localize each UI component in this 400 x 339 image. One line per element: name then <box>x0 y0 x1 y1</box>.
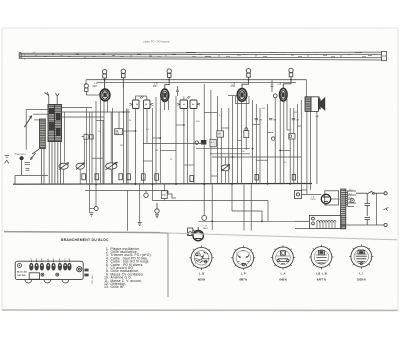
svg-text:R.P. 4049: R.P. 4049 <box>92 274 94 284</box>
tube V4 output <box>280 88 288 101</box>
wire V2 legs <box>152 97 168 184</box>
socket V2 label <box>239 271 247 281</box>
wire V1 legs <box>92 99 113 184</box>
strip small rect <box>29 273 39 279</box>
wire short links mid band <box>92 112 301 184</box>
svg-text:1M: 1M <box>296 120 299 122</box>
label L.P tube V1 <box>92 82 98 88</box>
socket V4 base <box>309 245 333 269</box>
socket V3 base <box>271 245 295 269</box>
dial tiny figures <box>24 52 320 61</box>
svg-text:L. I: L. I <box>359 271 363 275</box>
socket V5 label <box>357 271 366 281</box>
separator rule right <box>160 233 397 240</box>
svg-text:5M: 5M <box>218 134 221 136</box>
cathode resistor box R16 <box>161 191 167 199</box>
svg-text:6AF7 N: 6AF7 N <box>317 278 326 282</box>
dial left end bracket <box>19 53 21 59</box>
coupling capacitor C11 <box>271 80 274 92</box>
svg-text:5M: 5M <box>273 120 276 122</box>
strip terminal lugs <box>30 260 72 270</box>
svg-text:2: 2 <box>36 259 37 261</box>
svg-text:50K: 50K <box>196 121 200 123</box>
coupling capacitor C7 <box>176 86 179 96</box>
svg-text:5M: 5M <box>120 145 123 147</box>
grid cap G1 <box>102 69 106 89</box>
wire mid-band vertical runs <box>103 80 317 190</box>
socket V4 label <box>316 271 327 281</box>
mains switch S2 <box>356 191 384 194</box>
wire MF2 legs <box>176 96 194 184</box>
label tube V4 <box>278 83 282 86</box>
ground symbol <box>138 222 142 225</box>
screen rail <box>97 81 296 83</box>
grid stopper node <box>273 94 277 98</box>
wire antenna leads to frame aerial <box>44 92 59 104</box>
resistor R12 <box>244 128 249 138</box>
wire left horizontals <box>62 80 131 117</box>
wire PS links <box>301 190 339 199</box>
power supply: B+ terminal block <box>295 191 302 199</box>
resistor R14 <box>289 134 295 139</box>
IF transformer MF2 <box>177 96 200 109</box>
strip mounting holes <box>41 273 59 276</box>
antenna coupling caps <box>25 163 30 171</box>
magic eye tube V6 <box>193 227 203 241</box>
wire block bottom leads <box>42 142 61 185</box>
svg-text:25Z6 N: 25Z6 N <box>357 278 366 282</box>
mains terminal bottom <box>384 223 387 226</box>
grid cap G5 <box>283 68 293 88</box>
dial scale assembly <box>19 52 383 60</box>
junction dots <box>95 79 292 222</box>
stage box tube V3 <box>236 96 250 104</box>
wire AVC line <box>143 144 301 158</box>
T1 secondary windings <box>347 191 356 207</box>
decoupling resistor R boxes row <box>82 174 296 182</box>
volume potentiometer P1 <box>59 163 69 170</box>
IF transformer MF1 <box>129 96 153 109</box>
wire ground run left <box>15 176 48 185</box>
socket V3 label <box>279 271 286 281</box>
B+ top rail <box>86 79 307 81</box>
terminal strip body <box>15 261 83 279</box>
tube V1 converter <box>100 89 110 101</box>
strip lug numbers <box>31 258 70 261</box>
value label R9 <box>115 129 123 136</box>
svg-text:6E8: 6E8 <box>92 85 97 88</box>
svg-text:6H8 N: 6H8 N <box>279 278 286 282</box>
output transformer T2 <box>305 97 318 112</box>
electrolytic capacitor C8 <box>195 140 206 145</box>
tap node N <box>350 199 354 203</box>
svg-text:cadre PO - GO accord: cadre PO - GO accord <box>144 40 170 44</box>
pilot lamp E1 <box>84 84 88 95</box>
svg-text:L. P: L. P <box>241 271 246 275</box>
lamp node on second bus <box>144 191 148 198</box>
svg-text:2M: 2M <box>262 108 265 110</box>
svg-text:L.B - L.B: L.B - L.B <box>316 271 327 275</box>
label L.P tube V2 <box>153 82 158 88</box>
capacitor marks C14 <box>292 118 299 121</box>
svg-text:5M: 5M <box>155 150 158 152</box>
wire below-bus runs <box>90 184 309 230</box>
tone potentiometer P2 <box>76 163 85 170</box>
capacitor marks C13 <box>269 118 276 121</box>
terminal node 2 <box>155 203 159 218</box>
svg-text:1M: 1M <box>294 112 297 114</box>
grid cap G3 <box>165 69 172 89</box>
wire drops from second bus <box>96 184 128 231</box>
speaker HP <box>318 98 324 110</box>
tuning gang arrow <box>24 116 31 128</box>
svg-text:6M7 N: 6M7 N <box>239 278 247 282</box>
strip right screw <box>77 267 82 272</box>
label magic eye <box>203 226 209 231</box>
svg-text:OSC 455: OSC 455 <box>17 274 26 277</box>
label L.P tube V3 <box>231 82 236 88</box>
svg-text:3: 3 <box>41 259 42 261</box>
rectifier enclosure <box>325 191 339 205</box>
chassis ground bus <box>13 183 312 186</box>
label rectifier <box>310 197 316 202</box>
strip left screw <box>18 264 22 268</box>
svg-text:L. B: L. B <box>199 271 204 275</box>
grid cap G4 <box>242 69 251 89</box>
svg-text:BRANCHEMENT DU BLOC: BRANCHEMENT DU BLOC <box>61 238 109 242</box>
grid cap G2 <box>121 69 125 88</box>
page bottom shadow edge <box>2 309 398 312</box>
legend list <box>104 247 152 289</box>
dial cord tick marks <box>36 52 372 58</box>
svg-text:6H8: 6H8 <box>231 85 236 88</box>
capacitor C10 block <box>217 131 224 137</box>
terminal node <box>94 207 98 211</box>
socket V1 base <box>189 246 213 270</box>
svg-text:6: 6 <box>59 259 60 261</box>
svg-text:7: 7 <box>64 259 65 261</box>
terminal strip scalloped bottom <box>25 280 69 283</box>
wire V4 legs <box>280 99 294 184</box>
capacitor pair C4 C5 <box>82 134 94 139</box>
strip right tabs <box>84 269 88 277</box>
svg-text:10K: 10K <box>241 151 245 153</box>
tube V2 IF amplifier <box>161 89 169 101</box>
socket V1 label <box>198 271 205 281</box>
wire speaker top link <box>311 97 319 99</box>
wire block left taps <box>26 109 48 149</box>
svg-text:6E8 N: 6E8 N <box>198 278 205 282</box>
second bus below chassis <box>85 191 176 199</box>
socket V2 base <box>231 246 255 270</box>
magic eye socket box <box>188 228 196 236</box>
capacitor C9 block <box>210 139 216 147</box>
wire MF1 legs <box>124 88 148 184</box>
socket V5 base <box>349 244 373 268</box>
volume control P3 <box>104 162 117 170</box>
strip label text <box>17 271 28 277</box>
filter capacitor C16 <box>365 218 371 225</box>
ground symbol <box>90 213 94 216</box>
tuning coil block L1 <box>48 105 62 142</box>
pickup mark <box>383 207 388 210</box>
wire selector to bus <box>295 221 340 228</box>
wire earth lead <box>21 160 23 175</box>
svg-text:L. A: L. A <box>281 271 286 275</box>
svg-text:6M7: 6M7 <box>153 85 158 88</box>
node J1 <box>272 137 275 140</box>
tone control P4 <box>221 164 230 171</box>
mains terminal top <box>384 192 387 195</box>
tube V3 detector <box>237 89 246 102</box>
wire V3 legs <box>229 96 246 184</box>
svg-text:Grille HF.: Grille HF. <box>111 285 126 289</box>
svg-text:HP: HP <box>316 115 320 118</box>
dial tiny dashes <box>44 54 377 57</box>
svg-text:6AF7: 6AF7 <box>203 227 209 230</box>
filter capacitor C15 <box>365 193 371 216</box>
wire mains bottom run <box>340 193 384 225</box>
svg-text:L.B: L.B <box>278 83 282 86</box>
svg-text:2M: 2M <box>259 120 262 122</box>
capacitor marks C12 <box>255 118 263 121</box>
legend box <box>160 233 168 297</box>
svg-text:BLOC 451: BLOC 451 <box>17 271 28 274</box>
svg-text:25Z6: 25Z6 <box>310 199 316 201</box>
T1 winding labels <box>349 189 353 203</box>
wire left-centre extras <box>64 108 226 184</box>
scattered value labels <box>98 108 297 164</box>
edge terre marks <box>5 156 10 164</box>
svg-text:1: 1 <box>31 259 32 261</box>
separator rule left <box>4 232 160 233</box>
power transformer T1 core <box>341 189 346 229</box>
svg-text:13.: 13. <box>104 285 109 289</box>
padder coil block L2 <box>40 119 46 149</box>
svg-text:KΩ: KΩ <box>116 133 120 135</box>
svg-text:8: 8 <box>69 259 70 261</box>
svg-text:5: 5 <box>53 259 54 261</box>
rectifier tube V5 <box>321 194 330 203</box>
dial right end bracket <box>382 51 387 60</box>
voltage selector box <box>309 215 341 228</box>
svg-text:Prise terre: Prise terre <box>15 153 27 156</box>
main schematic <box>13 68 388 241</box>
node circle above magic eye <box>202 216 207 221</box>
wave switch <box>30 149 39 160</box>
wire into V3 grid <box>228 95 237 97</box>
